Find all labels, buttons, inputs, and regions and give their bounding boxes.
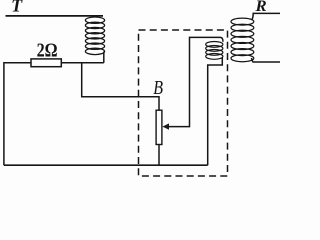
small coil (right transformer primary, inside dashed box) — [206, 42, 223, 60]
wire: secondary bottom lead to R (right edge) — [252, 58, 281, 62]
inductor L1 (transformer T winding) — [85, 17, 104, 55]
wire: wiper lead from arrow to small coil top — [169, 37, 223, 126]
wire: resistor left lead and left vertical conductor — [4, 63, 31, 166]
wire: bottom rail — [4, 164, 208, 166]
svg-text:T: T — [11, 0, 23, 16]
wire: resistor right lead to coil bottom — [61, 62, 104, 64]
big coil (right transformer secondary to R) — [231, 18, 254, 62]
wire: potentiometer bottom lead to rail — [158, 145, 160, 166]
wire: small coil bottom lead down to rail — [208, 57, 223, 165]
wire: coil L1 bottom lead — [103, 52, 105, 63]
dashed enclosure (black box) — [139, 30, 228, 176]
wire: top transmission line from T to coil L1 — [6, 15, 104, 17]
wire: secondary top lead to R (right edge) — [252, 13, 280, 19]
resistor R1 (2 ohm line resistance) — [31, 59, 61, 67]
svg-text:R: R — [254, 0, 266, 15]
potentiometer B body — [156, 110, 162, 144]
wire: branch from node at (82,64) down and right to potentiometer top — [82, 63, 159, 110]
wiper arrowhead pointing at potentiometer — [162, 123, 169, 129]
svg-text:B: B — [153, 77, 163, 99]
